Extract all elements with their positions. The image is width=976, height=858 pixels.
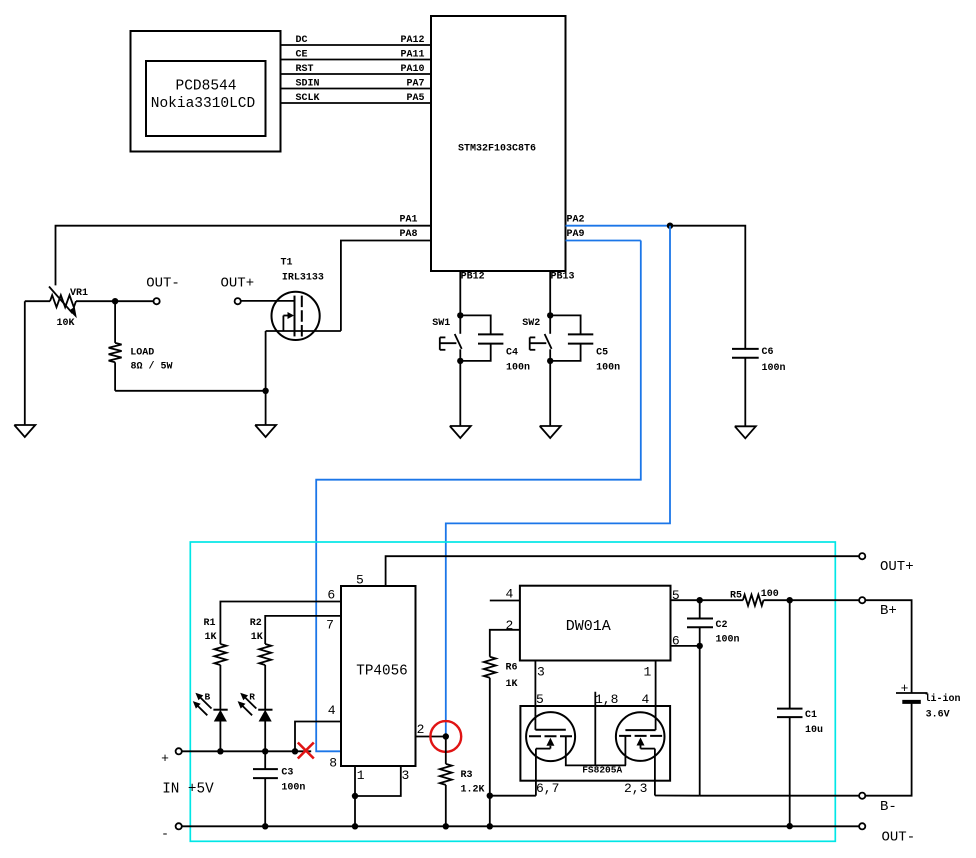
- switch SW1 actuator: [440, 337, 457, 349]
- svg-text:3: 3: [402, 768, 410, 783]
- capacitor C2 wires: [699, 600, 701, 646]
- node junction C1 gnd: [787, 823, 793, 829]
- label R3 1.2K: [461, 785, 485, 796]
- transistor Q-B arrow: [637, 738, 655, 749]
- LED R arrows: [238, 693, 257, 716]
- label IRL3133: [282, 273, 324, 284]
- wire TP4056 gnd: [354, 796, 356, 826]
- node junction LED B anode: [217, 748, 223, 754]
- switch SW1 lower contact: [459, 349, 461, 361]
- svg-text:PA1: PA1: [400, 214, 418, 225]
- capacitor C5 top wire: [550, 315, 580, 334]
- svg-text:1: 1: [357, 768, 365, 783]
- label C5: [596, 347, 608, 358]
- svg-text:B: B: [205, 692, 211, 703]
- pin label 4 (FS8205A): [642, 692, 650, 707]
- resistor R5 right wire: [764, 599, 790, 601]
- svg-text:OUT-: OUT-: [882, 830, 916, 846]
- svg-text:Nokia3310LCD: Nokia3310LCD: [151, 96, 255, 112]
- pin label 1 (TP4056): [357, 768, 365, 783]
- label B: [205, 692, 211, 703]
- svg-text:C3: C3: [281, 768, 293, 779]
- pin label 5 (TP4056): [356, 573, 364, 588]
- label C2: [716, 620, 728, 631]
- node junction TP4056 gnd: [352, 823, 358, 829]
- wire pin6 node down to B- rail: [699, 646, 701, 796]
- wire TP4056 pin6 to R1: [220, 602, 341, 645]
- svg-text:SW2: SW2: [522, 318, 540, 329]
- svg-text:T1: T1: [281, 258, 293, 269]
- svg-text:R: R: [249, 692, 255, 703]
- svg-text:PCD8544: PCD8544: [176, 78, 237, 94]
- svg-text:PB12: PB12: [461, 271, 485, 282]
- LED B symbol: [213, 710, 227, 752]
- svg-text:1,8: 1,8: [595, 692, 618, 707]
- transistor Q-B drain lead: [624, 736, 626, 766]
- svg-text:8Ω / 5W: 8Ω / 5W: [131, 361, 173, 373]
- label C6: [762, 347, 774, 358]
- wire R6 node to gnd: [489, 796, 491, 827]
- svg-text:C6: C6: [762, 347, 774, 358]
- svg-text:LOAD: LOAD: [130, 348, 154, 359]
- pin label 3 (TP4056): [402, 768, 410, 783]
- svg-text:OUT+: OUT+: [880, 559, 914, 575]
- svg-text:6: 6: [327, 588, 335, 603]
- node junction C3 gnd: [262, 823, 268, 829]
- svg-text:100n: 100n: [596, 363, 620, 374]
- terminal OUT+ (load): [235, 298, 241, 304]
- svg-text:10K: 10K: [57, 318, 75, 329]
- svg-text:IRL3133: IRL3133: [282, 273, 324, 284]
- svg-text:PA10: PA10: [400, 64, 424, 75]
- label 8ohm/5W: [131, 361, 173, 373]
- wire to B+ terminal: [790, 599, 860, 601]
- svg-text:DC: DC: [296, 35, 308, 46]
- capacitor C4 bottom wire: [460, 344, 490, 361]
- capacitor C1 top wire: [789, 600, 791, 708]
- node junction SW1 top: [457, 312, 463, 318]
- highlight circle (red): [430, 721, 461, 752]
- wire R2 to LED R: [264, 665, 266, 710]
- wire DW01A pin4 stub: [490, 600, 520, 602]
- svg-text:5: 5: [672, 588, 680, 603]
- label T1: [281, 258, 293, 269]
- svg-text:4: 4: [328, 703, 336, 718]
- terminal B+: [859, 597, 865, 603]
- wire PB12 down: [459, 271, 461, 315]
- resistor R2 body: [259, 644, 271, 665]
- node junction SW2 bottom: [547, 358, 553, 364]
- wire LOAD to T1-source rail: [115, 390, 266, 392]
- wire DW01A pin2 to R6: [490, 630, 520, 657]
- pin label PA12: [400, 35, 424, 46]
- label C4 100n: [506, 363, 530, 374]
- svg-text:IN +5V: IN +5V: [162, 782, 214, 798]
- label OUT- (load): [146, 276, 180, 292]
- pin label 5 (FS8205A): [536, 692, 544, 707]
- pin label 1 (DW01A): [644, 664, 652, 679]
- terminal IN+: [176, 748, 182, 754]
- label R: [249, 692, 255, 703]
- wire DW01A pin6 stub: [671, 645, 700, 647]
- wire battery to B-: [865, 702, 911, 796]
- ground symbol at T1: [255, 425, 276, 437]
- wire TP4056 pin4: [295, 722, 341, 752]
- node junction R6/source: [487, 793, 493, 799]
- svg-text:OUT-: OUT-: [146, 276, 180, 292]
- label battery +: [901, 681, 909, 696]
- charger IC U3 TP4056 box: [341, 586, 416, 766]
- svg-text:+: +: [161, 751, 169, 766]
- wire PB13 down: [549, 271, 551, 315]
- label R1: [204, 618, 216, 629]
- transistor Q-A drain lead: [566, 736, 626, 765]
- pin label PA10: [400, 64, 424, 75]
- label DC: [296, 35, 308, 46]
- pin label PB12: [461, 271, 485, 282]
- svg-text:100n: 100n: [762, 363, 786, 374]
- wire R1 to LED B: [219, 665, 221, 710]
- LCD module PCD8544 outer box: [131, 31, 281, 152]
- pin label PA7: [406, 78, 424, 89]
- charger module boundary box: [190, 542, 835, 841]
- node junction pin5/C2/R5: [697, 597, 703, 603]
- capacitor C6 plates: [732, 349, 759, 358]
- svg-text:1: 1: [644, 664, 652, 679]
- svg-text:3.6V: 3.6V: [926, 710, 950, 721]
- pin label 2 (DW01A): [506, 618, 514, 633]
- capacitor C4 plates: [478, 334, 503, 343]
- label - (input): [161, 827, 169, 842]
- pin label PB13: [551, 271, 575, 282]
- wire DW01A pin5 stub: [671, 599, 700, 601]
- svg-text:8: 8: [329, 756, 337, 771]
- terminal IN-: [176, 823, 182, 829]
- svg-text:PA8: PA8: [400, 229, 418, 240]
- capacitor C5 bottom wire: [550, 344, 580, 361]
- label TP4056: [356, 664, 407, 680]
- transistor T1 circle: [272, 292, 320, 340]
- svg-text:100n: 100n: [716, 635, 740, 646]
- label VR1: [70, 288, 88, 299]
- label R2: [250, 618, 262, 629]
- label FS8205A: [582, 765, 622, 776]
- terminal OUT+: [859, 553, 865, 559]
- capacitor C4 top wire: [460, 315, 490, 334]
- pin label 5 (DW01A): [672, 588, 680, 603]
- svg-text:C4: C4: [506, 347, 518, 358]
- switch SW1 upper contact: [459, 315, 461, 333]
- svg-text:1K: 1K: [251, 632, 263, 643]
- svg-text:-: -: [161, 827, 169, 842]
- LCD module inner box: [146, 61, 266, 136]
- svg-text:DW01A: DW01A: [566, 618, 611, 635]
- wire CE net LCD to MCU: [281, 59, 432, 61]
- transistor T1 arrow: [283, 312, 294, 331]
- svg-text:5: 5: [356, 573, 364, 588]
- svg-text:1K: 1K: [506, 679, 518, 690]
- node junction R6 gnd: [487, 823, 493, 829]
- potentiometer VR1 body: [50, 295, 76, 307]
- transistor T1 gate bar: [294, 296, 296, 337]
- svg-text:SCLK: SCLK: [296, 93, 320, 104]
- pin label 8 (TP4056): [329, 756, 337, 771]
- svg-text:1K: 1K: [205, 632, 217, 643]
- battery BT1 minus plate: [902, 700, 921, 704]
- svg-text:SW1: SW1: [432, 318, 450, 329]
- svg-text:PA2: PA2: [567, 214, 585, 225]
- label Nokia3310LCD: [151, 96, 255, 112]
- cut mark X (red): [298, 743, 314, 759]
- svg-text:RST: RST: [296, 64, 314, 75]
- capacitor C2 plates: [687, 619, 713, 628]
- terminal B-: [859, 793, 865, 799]
- switch SW1 lever: [455, 334, 462, 349]
- label R6: [506, 663, 518, 674]
- node junction SW1 bottom: [457, 358, 463, 364]
- label RST: [296, 64, 314, 75]
- svg-text:B-: B-: [880, 799, 897, 815]
- label IN +5V: [162, 782, 214, 798]
- wire LOAD top: [114, 301, 116, 343]
- label OUT-: [882, 830, 916, 846]
- battery BT1 plus plate: [896, 692, 928, 694]
- resistor R3 body: [440, 764, 452, 785]
- svg-text:R6: R6: [506, 663, 518, 674]
- svg-text:PB13: PB13: [551, 271, 575, 282]
- capacitor C1 bottom wire: [789, 717, 791, 826]
- pin label PA11: [400, 49, 424, 60]
- wire TP4056 pin2: [416, 736, 446, 738]
- potentiometer VR1 wiper arrow: [49, 287, 77, 319]
- terminal OUT-: [859, 823, 865, 829]
- capacitor C3 bottom wire: [264, 778, 266, 826]
- ground symbol SW1: [450, 426, 471, 438]
- svg-text:PA5: PA5: [406, 93, 424, 104]
- terminal OUT- (load): [154, 298, 160, 304]
- svg-text:PA11: PA11: [400, 49, 424, 60]
- wire OUT+ to T1 gate: [241, 300, 295, 302]
- svg-text:4: 4: [642, 692, 650, 707]
- wire PA8 net to T1 drain: [341, 241, 431, 331]
- wire PA1 net to VR1: [56, 226, 432, 286]
- label 3.6V: [926, 710, 950, 721]
- wire PA2 blue segment: [566, 225, 671, 227]
- resistor R5 left wire: [700, 599, 743, 601]
- transistor Q-A channel dashed: [529, 735, 572, 737]
- MCU U2 STM32F103C8T6 box: [431, 16, 566, 271]
- wire DC net LCD to MCU: [281, 44, 432, 46]
- svg-text:R5: R5: [730, 590, 742, 601]
- switch SW2 lever: [545, 334, 552, 349]
- label SDIN: [296, 78, 320, 89]
- transistor T1 source/drain line: [266, 330, 341, 332]
- svg-text:C5: C5: [596, 347, 608, 358]
- label C1 10u: [805, 725, 823, 736]
- capacitor C3 top wire: [264, 751, 266, 769]
- wire C6 to ground: [744, 358, 746, 427]
- wire left branch down: [24, 301, 26, 425]
- wire SDIN net LCD to MCU: [281, 88, 432, 90]
- resistor R3 top wire: [445, 737, 447, 764]
- svg-text:6,7: 6,7: [536, 781, 559, 796]
- svg-text:PA7: PA7: [406, 78, 424, 89]
- svg-text:STM32F103C8T6: STM32F103C8T6: [458, 144, 536, 155]
- label R5: [730, 590, 742, 601]
- label C5 100n: [596, 363, 620, 374]
- svg-text:3: 3: [537, 664, 545, 679]
- node junction T1 source/gnd: [262, 388, 268, 394]
- node junction prog node: [443, 733, 449, 739]
- resistor LOAD body: [109, 343, 122, 362]
- svg-text:2,3: 2,3: [624, 781, 647, 796]
- label C6 100n: [762, 363, 786, 374]
- wire PA9 blue route: [316, 241, 641, 752]
- label R5 100: [761, 589, 779, 600]
- svg-text:R3: R3: [461, 770, 473, 781]
- svg-text:OUT+: OUT+: [220, 276, 254, 292]
- node junction pin6/C2: [697, 643, 703, 649]
- svg-text:100n: 100n: [506, 363, 530, 374]
- resistor R1 body: [214, 644, 226, 665]
- node junction LED R anode: [262, 748, 268, 754]
- wire VR1 left to ground branch: [25, 300, 50, 302]
- node junction R3 gnd: [443, 823, 449, 829]
- label C3: [281, 768, 293, 779]
- label B-: [880, 799, 897, 815]
- svg-text:6: 6: [672, 633, 680, 648]
- wire TP4056 pins 1,3: [355, 766, 401, 796]
- svg-text:R2: R2: [250, 618, 262, 629]
- svg-text:5: 5: [536, 692, 544, 707]
- pin label 2,3 (FS8205A): [624, 781, 647, 796]
- wire SCLK net LCD to MCU: [281, 102, 432, 104]
- wire Q-A source to R6 node: [490, 795, 536, 797]
- wire R3 bottom: [445, 785, 447, 826]
- pin label PA1: [400, 214, 418, 225]
- svg-text:CE: CE: [296, 49, 308, 60]
- node junction PA2: [667, 223, 673, 229]
- transistor Q-A gate bar: [535, 729, 565, 731]
- switch SW2 actuator: [530, 337, 547, 349]
- transistor Q-B gate bar: [625, 729, 655, 731]
- transistor Q-B source lead: [654, 749, 656, 796]
- label R1 1K: [205, 632, 217, 643]
- svg-text:2: 2: [506, 618, 514, 633]
- protection IC U4 DW01A box: [520, 586, 671, 661]
- wire PA9 blue segment: [566, 240, 641, 242]
- wire VR1 right to node: [76, 300, 154, 302]
- label + (input): [161, 751, 169, 766]
- ground symbol C6: [735, 426, 756, 438]
- label C2 100n: [716, 635, 740, 646]
- pin label 6: [327, 588, 335, 603]
- svg-text:SDIN: SDIN: [296, 78, 320, 89]
- LED R symbol: [258, 710, 272, 752]
- switch SW2 upper contact: [549, 315, 551, 333]
- pin label 3 (DW01A): [537, 664, 545, 679]
- svg-text:R1: R1: [204, 618, 216, 629]
- node junction SW2 top: [547, 312, 553, 318]
- pin label 4 (TP4056): [328, 703, 336, 718]
- label C4: [506, 347, 518, 358]
- wire down to ground: [265, 391, 267, 425]
- ground symbol at VR1: [14, 425, 35, 437]
- transistor Q-B circle: [616, 712, 665, 761]
- pin label 7: [326, 618, 334, 633]
- wire PA2 to C6: [670, 226, 745, 349]
- wire T1 source down: [265, 331, 267, 391]
- svg-text:B+: B+: [880, 603, 897, 619]
- svg-text:PA12: PA12: [400, 35, 424, 46]
- transistor Q-B channel dashed: [619, 735, 662, 737]
- wire SW2 to ground: [549, 361, 551, 426]
- label OUT+ (load): [220, 276, 254, 292]
- wire B+ to battery: [865, 600, 911, 693]
- pin label PA2: [567, 214, 585, 225]
- svg-text:2: 2: [417, 722, 425, 737]
- svg-text:7: 7: [326, 618, 334, 633]
- resistor R5 body: [743, 595, 764, 606]
- wire LOAD bottom: [114, 362, 116, 391]
- label C3 100n: [281, 783, 305, 794]
- label 10K: [57, 318, 75, 329]
- transistor Q-A circle: [526, 712, 575, 761]
- capacitor C5 plates: [568, 334, 593, 343]
- label R6 1K: [506, 679, 518, 690]
- svg-text:100: 100: [761, 589, 779, 600]
- node junction pins1,3: [352, 793, 358, 799]
- pin label 4 (DW01A): [506, 587, 514, 602]
- pin label 6,7 (FS8205A): [536, 781, 559, 796]
- pin label PA5: [406, 93, 424, 104]
- wire B- rail: [700, 795, 860, 797]
- pin label 6 (DW01A): [672, 633, 680, 648]
- label PCD8544: [176, 78, 237, 94]
- wire Q-B source to B- rail: [655, 795, 700, 797]
- wire R6 bottom: [489, 678, 491, 796]
- capacitor C1 plates: [777, 709, 803, 718]
- label DW01A: [566, 618, 611, 635]
- label C1: [805, 710, 817, 721]
- pin 1,8 stub: [594, 692, 596, 766]
- label STM32F103C8T6: [458, 144, 536, 155]
- wire GND rail (OUT-): [182, 825, 859, 827]
- pin label PA9: [567, 229, 585, 240]
- transistor Q-A source lead: [535, 749, 537, 796]
- label OUT+: [880, 559, 914, 575]
- label li-ion: [925, 693, 961, 705]
- svg-text:100n: 100n: [281, 783, 305, 794]
- label B+: [880, 603, 897, 619]
- transistor Q-A arrow: [536, 738, 555, 749]
- wire TP4056 pin5 to OUT+: [386, 556, 860, 586]
- wire SW1 to ground: [459, 361, 461, 426]
- LED B arrows: [193, 693, 212, 716]
- wire PA2 blue route: [446, 226, 670, 737]
- svg-text:VR1: VR1: [70, 288, 88, 299]
- switch SW2 lower contact: [549, 349, 551, 361]
- dual MOSFET U5 FS8205A box: [520, 706, 670, 781]
- svg-text:1.2K: 1.2K: [461, 785, 485, 796]
- label SW1: [432, 318, 450, 329]
- wire DW01A pin3 to Q-A gate: [534, 661, 536, 730]
- svg-text:10u: 10u: [805, 725, 823, 736]
- label CE: [296, 49, 308, 60]
- label LOAD: [130, 348, 154, 359]
- svg-text:li-ion: li-ion: [925, 693, 961, 705]
- wire TP4056 pin7 to R2: [265, 616, 341, 644]
